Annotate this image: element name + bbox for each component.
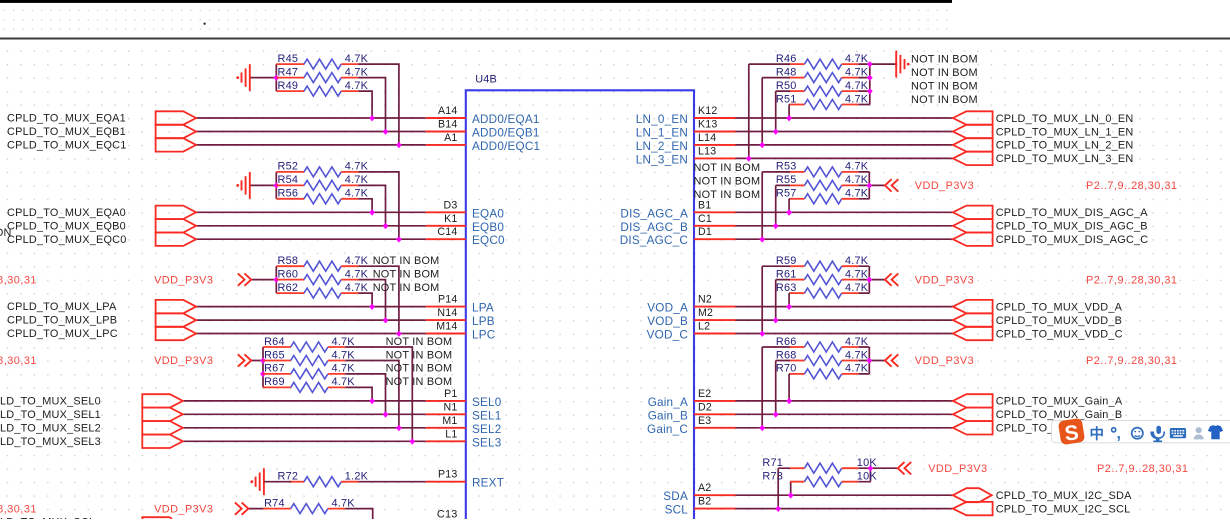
- svg-text:4.7K: 4.7K: [345, 255, 369, 267]
- svg-text:R46: R46: [776, 53, 797, 65]
- pin N1 (SEL1): [426, 401, 502, 422]
- svg-text:C14: C14: [437, 226, 457, 238]
- pin K12 (LN_0_EN): [636, 105, 736, 126]
- svg-text:CPLD_TO_MUX_DIS_AGC_C: CPLD_TO_MUX_DIS_AGC_C: [996, 234, 1149, 246]
- svg-text:VDD_P3V3: VDD_P3V3: [915, 180, 974, 192]
- pin A14 (ADD0/EQA1): [426, 105, 540, 126]
- svg-text:K13: K13: [698, 119, 718, 131]
- net label P2..7,9..28,30,31 right r22: [1086, 355, 1177, 367]
- wire net CPLD_TO_MUX_EQB0: [196, 185, 426, 225]
- svg-text:VDD_P3V3: VDD_P3V3: [928, 463, 987, 475]
- junctions net CPLD_TO_MUX_EQC1: [396, 142, 402, 148]
- svg-text:R57: R57: [776, 188, 797, 200]
- svg-text:4.7K: 4.7K: [345, 282, 369, 294]
- label NOT IN BOM (right of IC): [694, 189, 761, 201]
- power VDD_P3V3 right r9: [885, 179, 974, 192]
- pin E2 (Gain_A): [648, 388, 736, 409]
- svg-text:M1: M1: [442, 415, 457, 427]
- port CPLD_TO_MUX_EQA0: [7, 206, 196, 219]
- icon microphone: [1150, 426, 1165, 442]
- port CPLD_TO_MUX_LPB: [7, 313, 196, 326]
- svg-text:DIS_AGC_A: DIS_AGC_A: [620, 207, 688, 220]
- svg-text:LPC: LPC: [472, 329, 495, 342]
- svg-text:A14: A14: [438, 105, 458, 117]
- pin E3 (Gain_C): [647, 415, 735, 436]
- resistor R56 4.7K: [276, 188, 368, 204]
- svg-text:4.7K: 4.7K: [345, 174, 369, 186]
- resistor R57 4.7K: [776, 188, 869, 204]
- svg-text:LN_3_EN: LN_3_EN: [636, 153, 688, 166]
- port CPLD_TO_MUX_LN_1_EN: [953, 125, 1134, 139]
- svg-text:DIS_AGC_B: DIS_AGC_B: [620, 221, 688, 234]
- ground R72: [251, 468, 292, 495]
- junctions net CPLD_TO_MUX_LN_2_EN: [759, 142, 765, 148]
- power VDD_P3V3 right r22: [885, 354, 974, 367]
- label NOT IN BOM (group3 left): [373, 268, 440, 280]
- svg-text:CPLD_TO_MUX_SEL0: CPLD_TO_MUX_SEL0: [0, 396, 101, 408]
- port CPLD_TO_MUX_EQC0: [7, 233, 196, 246]
- junctions net CPLD_TO_MUX_SEL0: [369, 398, 375, 404]
- port CPLD_TO_MUX_I2C_SDA (bidirectional): [953, 488, 1132, 502]
- svg-text:LN_0_EN: LN_0_EN: [636, 113, 688, 126]
- svg-text:CPLD_TO_MUX_EQA1: CPLD_TO_MUX_EQA1: [7, 113, 126, 125]
- junctions net CPLD_TO_MUX_SEL3: [409, 438, 415, 444]
- junctions net CPLD_TO_MUX_LPC: [396, 331, 402, 337]
- svg-text:CPLD_TO_MUX_EQC0: CPLD_TO_MUX_EQC0: [7, 234, 127, 246]
- svg-text:L14: L14: [698, 132, 716, 144]
- resistor R49 4.7K: [276, 80, 368, 96]
- wire net CPLD_TO_MUX_SEL0: [183, 387, 425, 401]
- svg-text:4.7K: 4.7K: [845, 174, 869, 186]
- junctions net CPLD_TO_MUX_LN_0_EN: [786, 115, 792, 121]
- label NOT IN BOM (right of IC): [694, 175, 761, 187]
- wire net CPLD_TO_MUX_Gain_A: [736, 374, 953, 401]
- svg-text:CPLD_TO_MUX_VDD_A: CPLD_TO_MUX_VDD_A: [996, 301, 1123, 313]
- svg-text:4.7K: 4.7K: [845, 336, 869, 348]
- svg-text:CPLD_TO_MUX_DIS_AGC_B: CPLD_TO_MUX_DIS_AGC_B: [996, 221, 1148, 233]
- junctions vdd tie group4-left: [260, 358, 266, 378]
- wire net CPLD_TO_MUX_LN_1_EN: [736, 91, 953, 131]
- pin B2 (SCL): [665, 496, 736, 517]
- wire vdd tie group4-right: [858, 347, 885, 374]
- svg-text:P2..7,9..28,30,31: P2..7,9..28,30,31: [0, 503, 37, 515]
- svg-text:CPLD_TO_MUX_VDD_B: CPLD_TO_MUX_VDD_B: [996, 315, 1122, 327]
- IC U4B: [466, 73, 694, 520]
- junctions net CPLD_TO_MUX_SEL1: [383, 411, 389, 417]
- label NOT IN BOM (top right): [911, 67, 978, 79]
- svg-text:CPLD_TO_MUX_LN_3_EN: CPLD_TO_MUX_LN_3_EN: [996, 153, 1134, 165]
- junctions gnd tie group1-left: [273, 75, 279, 81]
- svg-text:R56: R56: [278, 188, 299, 200]
- svg-text:LN_1_EN: LN_1_EN: [636, 127, 688, 140]
- junctions net CPLD_TO_MUX_VDD_B: [773, 317, 779, 323]
- svg-text:EQB0: EQB0: [472, 221, 504, 234]
- icon zhong (Chinese mode): [1090, 425, 1105, 443]
- svg-text:K1: K1: [444, 213, 457, 225]
- svg-text:P2..7,9..28,30,31: P2..7,9..28,30,31: [0, 355, 37, 367]
- svg-text:4.7K: 4.7K: [332, 336, 356, 348]
- port (bottom, partially cut): [0, 517, 172, 524]
- svg-text:EQA0: EQA0: [472, 207, 504, 220]
- ground group2-left: [236, 172, 249, 199]
- svg-text:CPLD_TO_MUX_LPB: CPLD_TO_MUX_LPB: [7, 315, 117, 327]
- svg-text:4.7K: 4.7K: [345, 188, 369, 200]
- port CPLD_TO_MUX_LN_3_EN: [953, 152, 1134, 166]
- power VDD_P3V3 right r16: [885, 273, 974, 286]
- svg-text:R61: R61: [776, 268, 797, 280]
- svg-text:N2: N2: [698, 294, 712, 306]
- svg-text:DIS_AGC_C: DIS_AGC_C: [620, 234, 688, 247]
- svg-text:ON: ON: [0, 227, 12, 239]
- stray dot: [203, 23, 205, 25]
- pin B1 (DIS_AGC_A): [620, 199, 735, 220]
- port CPLD_TO_MUX_DIS_AGC_B: [953, 219, 1148, 233]
- resistor R71 10K: [762, 457, 877, 473]
- svg-text:VDD_P3V3: VDD_P3V3: [154, 503, 213, 515]
- junctions net CPLD_TO_MUX_DIS_AGC_C: [759, 236, 765, 242]
- port CPLD_TO_MUX_VDD_A: [953, 300, 1123, 314]
- pin K13 (LN_1_EN): [636, 119, 736, 140]
- svg-text:R72: R72: [278, 471, 299, 483]
- port CPLD_TO_MUX_SEL3: [0, 435, 183, 448]
- svg-text:CPLD_TO_MUX_I2C_SCL: CPLD_TO_MUX_I2C_SCL: [996, 503, 1131, 515]
- resistor R68 4.7K: [776, 349, 869, 365]
- svg-text:ADD0/EQC1: ADD0/EQC1: [472, 140, 540, 153]
- net label P2..7,9..28,30,31 right r30: [1097, 463, 1188, 475]
- junctions net CPLD_TO_MUX_VDD_C: [759, 331, 765, 337]
- svg-text:R50: R50: [776, 80, 797, 92]
- wire net CPLD_TO_MUX_EQA0: [196, 199, 426, 213]
- svg-text:SDA: SDA: [663, 490, 688, 503]
- svg-text:R54: R54: [278, 174, 299, 186]
- junctions net CPLD_TO_MUX_Gain_B: [773, 411, 779, 417]
- junctions net CPLD_TO_MUX_LN_3_EN: [746, 156, 752, 162]
- svg-text:SEL1: SEL1: [472, 409, 501, 422]
- svg-text:VOD_B: VOD_B: [647, 315, 688, 328]
- svg-text:CPLD_TO_MUX_EQB1: CPLD_TO_MUX_EQB1: [7, 126, 126, 138]
- svg-text:CPLD_TO_MUX_LN_0_EN: CPLD_TO_MUX_LN_0_EN: [996, 113, 1134, 125]
- wire net CPLD_TO_MUX_LPC: [196, 266, 426, 333]
- resistor R73 10K: [762, 471, 877, 487]
- resistor R63 4.7K: [776, 282, 869, 298]
- svg-text:A2: A2: [698, 482, 711, 494]
- wire net CPLD_TO_MUX_LN_2_EN: [736, 78, 953, 145]
- svg-text:P1: P1: [444, 388, 457, 400]
- icon keyboard: [1170, 428, 1186, 438]
- svg-text:C1: C1: [698, 213, 712, 225]
- pin C1 (DIS_AGC_B): [620, 213, 735, 234]
- pin L1 (SEL3): [426, 428, 502, 449]
- junctions net CPLD_TO_MUX_LN_1_EN: [773, 129, 779, 135]
- pin L13 (LN_3_EN): [636, 145, 736, 166]
- svg-text:R70: R70: [776, 363, 797, 375]
- svg-text:R63: R63: [776, 282, 797, 294]
- svg-text:CPLD_TO_MUX_SEL1: CPLD_TO_MUX_SEL1: [0, 409, 101, 421]
- Sogou logo: [1058, 418, 1086, 447]
- wire net CPLD_TO_MUX_Gain_B: [736, 361, 953, 415]
- svg-text:VDD_P3V3: VDD_P3V3: [154, 355, 213, 367]
- svg-text:CPLD_TO_MUX_LN_2_EN: CPLD_TO_MUX_LN_2_EN: [996, 140, 1134, 152]
- junctions vdd tie group4-right: [866, 358, 872, 364]
- svg-text:4.7K: 4.7K: [845, 161, 869, 173]
- svg-text:Gain_B: Gain_B: [648, 409, 688, 422]
- junctions net CPLD_TO_MUX_EQB0: [383, 223, 389, 229]
- svg-text:Gain_A: Gain_A: [648, 396, 688, 409]
- svg-text:CPLD_TO_MUX_SEL2: CPLD_TO_MUX_SEL2: [0, 422, 101, 434]
- svg-text:P2..7,9..28,30,31: P2..7,9..28,30,31: [1086, 180, 1177, 192]
- wire net CPLD_TO_MUX_EQC1: [196, 64, 426, 145]
- resistor R58 4.7K: [276, 255, 368, 271]
- net label P2..7,9..28,30,31 left-edge r22: [0, 355, 37, 367]
- svg-text:NOT IN BOM: NOT IN BOM: [911, 81, 978, 93]
- svg-text:4.7K: 4.7K: [345, 53, 369, 65]
- svg-text:CPLD_TO_MUX_EQB0: CPLD_TO_MUX_EQB0: [7, 220, 126, 232]
- icon shirt: [1208, 425, 1223, 439]
- svg-text:4.7K: 4.7K: [345, 268, 369, 280]
- label ON sliver: [0, 227, 12, 239]
- svg-text:B2: B2: [698, 496, 711, 508]
- svg-text:D2: D2: [698, 401, 712, 413]
- resistor R70 4.7K: [776, 363, 869, 379]
- pin L14 (LN_2_EN): [636, 132, 736, 153]
- wire vdd tie group2-right: [858, 172, 885, 199]
- resistor R69 4.7K: [263, 376, 355, 392]
- wire net CPLD_TO_MUX_VDD_B: [736, 280, 953, 321]
- port CPLD_TO_MUX_LN_0_EN: [953, 111, 1134, 125]
- junctions net CPLD_TO_MUX_DIS_AGC_A: [786, 209, 792, 215]
- junctions net CPLD_TO_MUX_EQC0: [396, 236, 402, 242]
- port CPLD_TO_MUX_VDD_B: [953, 313, 1122, 327]
- svg-text:R49: R49: [278, 80, 299, 92]
- svg-text:4.7K: 4.7K: [345, 80, 369, 92]
- wire net CPLD_TO_MUX_EQB1: [196, 78, 426, 132]
- svg-text:R47: R47: [278, 66, 299, 78]
- svg-text:SEL3: SEL3: [472, 436, 501, 449]
- svg-text:4.7K: 4.7K: [845, 53, 869, 65]
- svg-text:SEL0: SEL0: [472, 396, 502, 409]
- svg-text:M2: M2: [698, 307, 713, 319]
- wire net CPLD_TO_MUX_SEL3: [183, 347, 425, 441]
- pin A2 (SDA): [663, 482, 735, 503]
- svg-text:4.7K: 4.7K: [845, 349, 869, 361]
- pin P1 (SEL0): [426, 388, 502, 409]
- svg-text:U4B: U4B: [475, 73, 497, 85]
- port CPLD_TO_MUX_EQB1: [7, 125, 196, 138]
- junctions net CPLD_TO_MUX_Gain_A: [786, 398, 792, 404]
- label NOT IN BOM (top right): [911, 94, 978, 106]
- svg-text:NOT IN BOM: NOT IN BOM: [386, 349, 453, 361]
- svg-text:R59: R59: [776, 255, 797, 267]
- port CPLD_TO_MUX_SEL0: [0, 394, 183, 407]
- svg-text:NOT IN BOM: NOT IN BOM: [911, 94, 978, 106]
- svg-text:E2: E2: [698, 388, 711, 400]
- net label P2..7,9..28,30,31 right r16: [1086, 274, 1177, 286]
- wire net CPLD_TO_MUX_LPA: [196, 293, 426, 307]
- pin P13 (REXT): [426, 469, 504, 490]
- resistor R60 4.7K: [276, 268, 368, 284]
- port CPLD_TO_MUX_DIS_AGC_C: [953, 233, 1149, 247]
- svg-text:EQC0: EQC0: [472, 234, 505, 247]
- junctions net CPLD_TO_MUX_Gain_C: [759, 425, 765, 431]
- svg-text:R66: R66: [776, 336, 797, 348]
- svg-text:R48: R48: [776, 66, 797, 78]
- pin B14 (ADD0/EQB1): [426, 119, 540, 140]
- svg-text:4.7K: 4.7K: [345, 66, 369, 78]
- wire net CPLD_TO_MUX_SEL2: [183, 361, 425, 428]
- top toolbar divider bar: [0, 0, 952, 3]
- svg-text:CPLD_TO_MUX_Gain_A: CPLD_TO_MUX_Gain_A: [996, 396, 1123, 408]
- svg-text:NOT IN BOM: NOT IN BOM: [373, 268, 440, 280]
- svg-text:C13: C13: [437, 509, 458, 520]
- port CPLD_TO_MUX_EQC1: [7, 138, 196, 151]
- port CPLD_TO_MUX_SEL2: [0, 421, 183, 434]
- svg-text:NOT IN BOM: NOT IN BOM: [373, 282, 440, 294]
- svg-text:SEL2: SEL2: [472, 423, 501, 436]
- resistor R67 4.7K: [263, 363, 355, 379]
- svg-text:NOT IN BOM: NOT IN BOM: [373, 255, 440, 267]
- svg-text:N1: N1: [444, 401, 458, 413]
- pin C13 (bottom, cut): [437, 509, 458, 521]
- svg-text:4.7K: 4.7K: [845, 255, 869, 267]
- svg-text:R55: R55: [776, 174, 797, 186]
- svg-text:K12: K12: [698, 105, 718, 117]
- svg-text:S: S: [1064, 421, 1080, 445]
- resistor R65 4.7K: [263, 349, 355, 365]
- label NOT IN BOM (group4 left): [386, 363, 453, 375]
- svg-text:R74: R74: [264, 497, 285, 509]
- svg-text:10K: 10K: [857, 471, 878, 483]
- power VDD_P3V3 group5-right: [898, 462, 988, 475]
- svg-text:P2..7,9..28,30,31: P2..7,9..28,30,31: [0, 274, 37, 286]
- svg-text:1.2K: 1.2K: [345, 471, 369, 483]
- resistor R61 4.7K: [776, 268, 869, 284]
- power VDD_P3V3 group3-left: [154, 273, 251, 286]
- label NOT IN BOM (group3 left): [373, 255, 440, 267]
- wire net CPLD_TO_MUX_I2C_SDA: [736, 482, 953, 496]
- junctions vdd tie group5-right: [868, 465, 874, 471]
- svg-text:4.7K: 4.7K: [332, 497, 356, 509]
- junctions vdd tie group3-left: [273, 277, 279, 283]
- resistor R54 4.7K: [276, 174, 368, 190]
- svg-text:R52: R52: [278, 161, 299, 173]
- svg-text:R51: R51: [776, 93, 797, 105]
- svg-text:N14: N14: [437, 307, 457, 319]
- svg-text:CPLD_TO_MUX_I2C_SDA: CPLD_TO_MUX_I2C_SDA: [996, 490, 1132, 502]
- port CPLD_TO_MUX_Gain_B: [953, 408, 1122, 422]
- junctions net CPLD_TO_MUX_LPA: [369, 304, 375, 310]
- svg-text:4.7K: 4.7K: [332, 363, 356, 375]
- wire gnd tie group1-left: [250, 64, 276, 91]
- pin D1 (DIS_AGC_C): [620, 226, 736, 247]
- wire net R74 to C13: [248, 509, 372, 519]
- svg-text:NOT IN BOM: NOT IN BOM: [694, 162, 761, 174]
- svg-text:CPLD_TO_MUX_VDD_C: CPLD_TO_MUX_VDD_C: [996, 328, 1123, 340]
- svg-text:CPLD_TO_MUX_EQC1: CPLD_TO_MUX_EQC1: [7, 140, 127, 152]
- pin P14 (LPA): [426, 294, 494, 315]
- junctions net CPLD_TO_MUX_I2C_SDA: [788, 492, 794, 498]
- port CPLD_TO_MUX_LPC: [7, 327, 196, 340]
- svg-text:VOD_C: VOD_C: [647, 329, 688, 342]
- svg-text:NOT IN BOM: NOT IN BOM: [386, 363, 453, 375]
- pin D3 (EQA0): [426, 199, 505, 220]
- junctions net CPLD_TO_MUX_SEL2: [396, 425, 402, 431]
- svg-text:,: ,: [1117, 426, 1121, 443]
- resistor R66 4.7K: [776, 336, 869, 352]
- svg-text:P2..7,9..28,30,31: P2..7,9..28,30,31: [1097, 463, 1188, 475]
- svg-text:CPLD_TO_MUX_LN_1_EN: CPLD_TO_MUX_LN_1_EN: [996, 126, 1134, 138]
- icon smiley: [1132, 428, 1143, 439]
- svg-text:Gain_C: Gain_C: [647, 423, 688, 436]
- svg-text:CPLD_TO_MUX_Gain_B: CPLD_TO_MUX_Gain_B: [996, 409, 1123, 421]
- label NOT IN BOM (top right): [911, 54, 978, 66]
- power VDD_P3V3 group4-left: [154, 354, 251, 367]
- svg-text:NOT IN BOM: NOT IN BOM: [694, 175, 761, 187]
- svg-text:P14: P14: [438, 294, 458, 306]
- junctions net CPLD_TO_MUX_EQA0: [369, 209, 375, 215]
- svg-text:4.7K: 4.7K: [332, 376, 356, 388]
- port CPLD_TO_MUX_SEL1: [0, 408, 183, 421]
- svg-text:R62: R62: [278, 282, 299, 294]
- ground group1-right: [896, 51, 909, 78]
- svg-text:4.7K: 4.7K: [845, 80, 869, 92]
- resistor R62 4.7K: [276, 282, 368, 298]
- resistor R51 4.7K: [776, 93, 869, 109]
- svg-text:LN_2_EN: LN_2_EN: [636, 140, 688, 153]
- label NOT IN BOM (top right): [911, 81, 978, 93]
- port CPLD_TO_MUX_LPA: [7, 300, 196, 313]
- pin D2 (Gain_B): [648, 401, 736, 422]
- svg-text:VDD_P3V3: VDD_P3V3: [915, 355, 974, 367]
- svg-text:A1: A1: [444, 132, 457, 144]
- svg-text:LPB: LPB: [472, 315, 495, 328]
- port CPLD_TO_MUX_DIS_AGC_A: [953, 206, 1148, 220]
- junctions net CPLD_TO_MUX_EQB1: [383, 129, 389, 135]
- svg-text:NOT IN BOM: NOT IN BOM: [386, 336, 453, 348]
- label NOT IN BOM (group4 left): [386, 376, 453, 388]
- port CPLD_TO_MUX_I2C_SCL: [953, 502, 1131, 516]
- wire net CPLD_TO_MUX_VDD_A: [736, 293, 953, 307]
- wire net CPLD_TO_MUX_DIS_AGC_A: [736, 199, 953, 213]
- net label P2..7,9..28,30,31 left-edge r16: [0, 274, 37, 286]
- svg-text:4.7K: 4.7K: [845, 93, 869, 105]
- icon person: [1194, 427, 1204, 439]
- svg-text:R60: R60: [278, 268, 299, 280]
- junctions net CPLD_TO_MUX_VDD_A: [786, 304, 792, 310]
- svg-text:4.7K: 4.7K: [845, 282, 869, 294]
- wire vdd tie group4-left: [251, 347, 263, 387]
- svg-text:VDD_P3V3: VDD_P3V3: [154, 274, 213, 286]
- svg-text:NOT IN BOM: NOT IN BOM: [911, 67, 978, 79]
- wire net CPLD_TO_MUX_VDD_C: [736, 266, 953, 333]
- wire net CPLD_TO_MUX_LPB: [196, 280, 426, 321]
- wire net CPLD_TO_MUX_EQC0: [196, 172, 426, 239]
- svg-text:L1: L1: [445, 428, 457, 440]
- resistor R59 4.7K: [776, 255, 869, 271]
- svg-text:B14: B14: [438, 119, 458, 131]
- label NOT IN BOM (group4 left): [386, 349, 453, 361]
- wire gnd tie group1-right: [858, 64, 896, 104]
- label NOT IN BOM (right of IC): [694, 162, 761, 174]
- svg-text:4.7K: 4.7K: [845, 188, 869, 200]
- pin M2 (VOD_B): [647, 307, 735, 328]
- svg-text:CPLD_TO_MUX_EQA0: CPLD_TO_MUX_EQA0: [7, 207, 126, 219]
- resistor R50 4.7K: [776, 80, 869, 96]
- resistor R74 4.7K: [263, 497, 355, 513]
- svg-text:SCL: SCL: [665, 504, 689, 517]
- svg-text:R53: R53: [776, 161, 797, 173]
- junctions net CPLD_TO_MUX_EQA1: [369, 115, 375, 121]
- port CPLD_TO_MUX_EQA1: [7, 111, 196, 124]
